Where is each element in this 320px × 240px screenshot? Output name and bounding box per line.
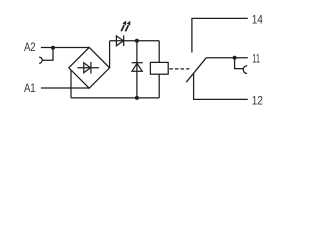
- wire stub from A2 junction down-left to socket: [42, 48, 53, 61]
- node junction dot on A2 wire: [51, 46, 55, 50]
- wire A2 to bridge top vertex: [41, 47, 89, 49]
- wire DC minus tap from bridge left edge down to bottom rail: [70, 70, 72, 98]
- relay coil top stub: [158, 41, 160, 63]
- contact movable arm: [186, 58, 206, 82]
- node junction dot top rail: [135, 39, 139, 43]
- wire stub from common junction down-right to socket: [235, 58, 244, 69]
- bridge rectifier diamond outline: [69, 47, 110, 88]
- LED cathode bar: [123, 35, 125, 46]
- bridge internal diode cathode bar: [90, 62, 92, 74]
- node junction dot bottom rail: [135, 96, 139, 100]
- mechanical linkage dashed line coil to contact: [169, 68, 189, 70]
- freewheel diode vertical branch wire: [136, 41, 138, 98]
- bridge internal diode line: [78, 67, 99, 69]
- wire bottom rail: [71, 97, 159, 99]
- freewheel diode cathode bar: [132, 62, 143, 64]
- svg-text:11: 11: [252, 53, 260, 66]
- relay coil bottom stub: [158, 74, 160, 98]
- node junction dot on common wire: [233, 56, 237, 60]
- wire common to terminal 11: [206, 57, 248, 59]
- contact NO fixed throw wire to terminal 14: [192, 18, 248, 52]
- wire top rail: [110, 40, 160, 42]
- freewheel diode triangle: [132, 63, 142, 71]
- socket contact (plug-in) at 11, arc open right: [243, 66, 247, 74]
- svg-text:12: 12: [252, 94, 263, 107]
- relay coil rectangle: [150, 62, 168, 74]
- wire A1 to bridge bottom vertex: [41, 87, 89, 89]
- wire DC plus tap from bridge right vertex up to top rail: [109, 41, 111, 68]
- svg-text:A1: A1: [24, 82, 36, 95]
- LED emission arrow 1: [121, 21, 126, 32]
- contact NC fixed throw wire to terminal 12: [194, 74, 248, 100]
- svg-text:14: 14: [252, 13, 263, 26]
- LED indicator triangle: [116, 36, 123, 46]
- svg-text:A2: A2: [24, 41, 36, 54]
- LED emission arrow 2: [125, 21, 130, 32]
- bridge internal diode triangle: [84, 63, 91, 73]
- socket contact (plug-in) at A2, arc open left: [39, 57, 42, 63]
